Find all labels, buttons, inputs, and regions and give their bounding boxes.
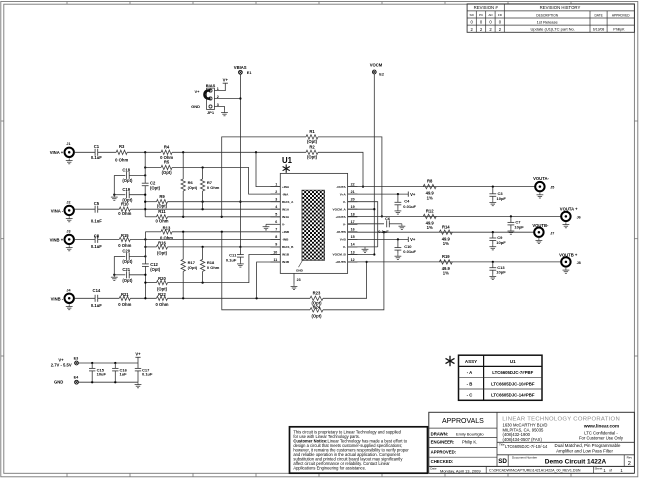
U1 pin 9 stub bbox=[271, 246, 281, 248]
svg-text:V+: V+ bbox=[135, 352, 141, 357]
revision history table bbox=[467, 4, 634, 32]
capacitor C15 bbox=[91, 363, 93, 368]
svg-text:C18: C18 bbox=[122, 168, 130, 173]
svg-text:0 Ohm: 0 Ohm bbox=[118, 243, 131, 248]
assembly option asterisk bbox=[449, 356, 451, 366]
svg-text:of: of bbox=[609, 469, 612, 473]
svg-text:J1: J1 bbox=[66, 142, 70, 146]
svg-text:R8: R8 bbox=[427, 179, 433, 184]
svg-text:12: 12 bbox=[351, 258, 355, 262]
wire JP1 pin2 to VBIAS bbox=[214, 98, 240, 100]
customer notice box bbox=[290, 427, 428, 473]
svg-text:DESCRIPTION: DESCRIPTION bbox=[536, 13, 558, 17]
U1 pin 19 stub bbox=[348, 208, 358, 210]
svg-text:(Opt): (Opt) bbox=[157, 251, 168, 256]
svg-text:Dual Matched, Pin Programmable: Dual Matched, Pin Programmable bbox=[555, 443, 621, 448]
ground at J3 bbox=[68, 245, 70, 247]
assembly options table bbox=[459, 355, 543, 400]
capacitor C9 bbox=[492, 232, 494, 238]
wire node B vertical lower bbox=[144, 266, 146, 298]
U1 pin 1 stub bbox=[271, 186, 281, 188]
svg-text:VINA -: VINA - bbox=[51, 209, 64, 214]
svg-text:0 Ohm: 0 Ohm bbox=[118, 302, 131, 307]
svg-text:SD: SD bbox=[470, 13, 475, 17]
svg-text:R13: R13 bbox=[163, 225, 171, 230]
U1 pin 7 stub bbox=[271, 231, 281, 233]
svg-text:R24: R24 bbox=[313, 304, 321, 309]
svg-text:3: 3 bbox=[275, 198, 277, 202]
title block outline bbox=[429, 412, 635, 466]
svg-text:4: 4 bbox=[275, 205, 277, 209]
capacitor C5 bbox=[94, 206, 96, 213]
wire R5 tap line bbox=[145, 167, 161, 169]
svg-text:REVISION HISTORY: REVISION HISTORY bbox=[540, 5, 581, 10]
svg-text:VBIAS: VBIAS bbox=[234, 65, 247, 70]
svg-text:V-: V- bbox=[343, 200, 346, 204]
border zone tick marks bbox=[66, 2, 68, 5]
svg-text:J5: J5 bbox=[550, 185, 554, 189]
svg-text:1%: 1% bbox=[443, 271, 449, 276]
capacitor C20 line bbox=[114, 255, 125, 257]
wire pin19 VOCM_A bbox=[348, 208, 375, 210]
wire +OUTB line pin12 to J8 bbox=[348, 261, 562, 263]
svg-text:(Opt): (Opt) bbox=[188, 185, 198, 190]
svg-text:VOCM: VOCM bbox=[370, 63, 383, 68]
wire pin6 V- to ground bbox=[266, 223, 271, 225]
svg-text:(Opt): (Opt) bbox=[122, 178, 133, 183]
resistor R9 bbox=[157, 200, 168, 204]
U1 pin 12 stub bbox=[348, 261, 358, 263]
svg-text:(Opt): (Opt) bbox=[122, 259, 133, 264]
svg-text:19: 19 bbox=[351, 205, 355, 209]
U1 exposed pad (hatched) bbox=[302, 190, 325, 260]
capacitor C2 (series in node) bbox=[142, 182, 149, 184]
ground at C13 bbox=[492, 274, 494, 276]
wire pin17 V- to C6 bbox=[348, 223, 384, 225]
capacitor C7 bbox=[510, 216, 512, 222]
svg-text:6/13/08: 6/13/08 bbox=[593, 27, 604, 31]
svg-text:1%: 1% bbox=[443, 241, 449, 246]
wire pin1 drop bbox=[256, 152, 280, 186]
svg-text:0.1uF: 0.1uF bbox=[91, 244, 102, 249]
wire J3 to C8 bbox=[74, 238, 95, 240]
jumper shunt on JP1 pins 1-2 bbox=[205, 90, 211, 98]
svg-text:VOCM_A: VOCM_A bbox=[333, 207, 347, 211]
svg-text:7: 7 bbox=[275, 228, 277, 232]
svg-text:V-: V- bbox=[343, 245, 346, 249]
power symbol V+ rail bbox=[137, 357, 139, 363]
resistor R19 bbox=[439, 260, 452, 264]
svg-text:R21: R21 bbox=[121, 292, 129, 297]
U1 pin 14 stub bbox=[348, 246, 358, 248]
svg-text:14: 14 bbox=[351, 243, 355, 247]
svg-text:(Opt): (Opt) bbox=[157, 286, 168, 291]
svg-text:R20: R20 bbox=[158, 276, 166, 281]
U1 pad GND callout bbox=[299, 260, 303, 267]
ground at C19 bbox=[113, 195, 115, 197]
svg-text:ENGINEER:: ENGINEER: bbox=[431, 440, 455, 445]
svg-text:(Opt): (Opt) bbox=[312, 313, 323, 318]
resistor R4 bbox=[161, 150, 172, 154]
svg-text:R22: R22 bbox=[158, 292, 166, 297]
wire +OUTA line pin18 to J6 bbox=[348, 215, 562, 217]
wire -OUTA line pin22 to J5 bbox=[348, 186, 536, 188]
resistor R13 bbox=[161, 230, 172, 234]
svg-text:16: 16 bbox=[351, 228, 355, 232]
svg-text:J2: J2 bbox=[66, 200, 70, 204]
svg-text:(408)434-0507 (FAX): (408)434-0507 (FAX) bbox=[503, 437, 543, 442]
svg-text:J8: J8 bbox=[577, 261, 581, 265]
resistor R22 bbox=[157, 296, 168, 300]
U1 pin 13 stub bbox=[348, 254, 358, 256]
svg-text:22: 22 bbox=[351, 182, 355, 186]
svg-text:23: 23 bbox=[297, 278, 301, 282]
svg-text:10pF: 10pF bbox=[496, 270, 506, 275]
svg-text:8: 8 bbox=[275, 235, 277, 239]
U1 assembly-option asterisk bbox=[285, 164, 287, 172]
wire V+ rail bbox=[78, 362, 138, 364]
svg-text:- C: - C bbox=[467, 393, 473, 398]
svg-text:Update (U1)LTC part No.: Update (U1)LTC part No. bbox=[531, 27, 575, 32]
ground at C7 bbox=[510, 229, 512, 231]
svg-text:ASSY: ASSY bbox=[465, 359, 477, 364]
wire -OUTB line pin16 to J7 bbox=[348, 231, 535, 233]
resistor R1 (feedback) riser bbox=[222, 137, 306, 217]
wire C14 to R21 bbox=[98, 297, 120, 299]
svg-text:Monday, April 13, 2009: Monday, April 13, 2009 bbox=[440, 468, 481, 473]
svg-text:E2: E2 bbox=[379, 72, 384, 76]
svg-text:0.1uF: 0.1uF bbox=[142, 372, 153, 377]
svg-text:VINA +: VINA + bbox=[50, 150, 64, 155]
U1 pin 6 stub bbox=[271, 223, 281, 225]
resistor R1 bbox=[306, 135, 318, 139]
resistor R6 vertical bbox=[182, 152, 184, 179]
svg-text:C14: C14 bbox=[93, 288, 101, 293]
date row bbox=[485, 466, 487, 473]
svg-text:C8: C8 bbox=[94, 234, 100, 239]
svg-text:(Opt): (Opt) bbox=[188, 265, 198, 270]
wire C8 to R15 bbox=[98, 238, 120, 240]
svg-text:(Opt): (Opt) bbox=[122, 278, 133, 283]
svg-text:LTC6605DJC-7#PBF: LTC6605DJC-7#PBF bbox=[492, 370, 533, 375]
power symbol V+ at pin15 bbox=[407, 237, 409, 242]
U1 pin 17 stub bbox=[348, 223, 358, 225]
capacitor C18 line bbox=[114, 174, 125, 176]
svg-text:0 Ohm: 0 Ohm bbox=[115, 158, 128, 163]
wire JP1 pin3 to ground bbox=[214, 107, 224, 111]
svg-text:VOUTA-: VOUTA- bbox=[533, 176, 549, 181]
svg-text:2: 2 bbox=[628, 461, 631, 467]
svg-text:DRAWN:: DRAWN: bbox=[431, 431, 449, 436]
op-amp/filter IC U1 body bbox=[280, 173, 347, 273]
capacitor C10 bbox=[397, 239, 399, 247]
wire R23 to +OUTB bbox=[323, 262, 367, 298]
wire R1 to +OUTA bbox=[318, 137, 382, 217]
wire pin4 line bbox=[145, 208, 280, 210]
svg-text:Title: Title bbox=[499, 443, 505, 447]
wire R21 to node B- bbox=[130, 297, 156, 299]
svg-text:Emily Bourtiglio: Emily Bourtiglio bbox=[456, 431, 484, 436]
svg-text:VINB +: VINB + bbox=[50, 238, 64, 243]
resistor R11 bbox=[157, 215, 168, 219]
capacitor C8 bbox=[94, 236, 96, 243]
capacitor C17 bbox=[137, 363, 139, 368]
svg-text:0 Ohm: 0 Ohm bbox=[155, 302, 168, 307]
wire R10 to node A- bbox=[130, 208, 145, 210]
svg-text:0.1uF: 0.1uF bbox=[226, 257, 237, 262]
svg-text:BIAS: BIAS bbox=[206, 83, 216, 88]
ground at pin6 bbox=[265, 224, 267, 226]
capacitor C13 bbox=[492, 262, 494, 268]
wire JP1 pin1 to V+ bbox=[214, 83, 225, 90]
resistor R16 bbox=[157, 245, 168, 249]
resistor R15 bbox=[119, 237, 130, 241]
U1 pin 20 stub bbox=[348, 201, 358, 203]
U1 pin 4 stub bbox=[271, 208, 281, 210]
wire node A vertical upper bbox=[144, 152, 146, 183]
wire J2 to C5 bbox=[74, 208, 95, 210]
svg-text:V+: V+ bbox=[410, 237, 416, 242]
wire R4 to pin1 branch and R2 bbox=[172, 151, 306, 153]
svg-text:U1: U1 bbox=[282, 156, 293, 165]
wire R13 to pin7 bbox=[172, 231, 280, 233]
svg-text:U1: U1 bbox=[510, 359, 516, 364]
resistor R23 (feedback) bbox=[310, 296, 323, 300]
svg-text:10pF: 10pF bbox=[497, 196, 507, 201]
svg-text:9: 9 bbox=[275, 243, 277, 247]
U1 pin 2 stub bbox=[271, 193, 281, 195]
svg-text:R5: R5 bbox=[164, 160, 170, 165]
svg-text:1%: 1% bbox=[427, 225, 433, 230]
wire R16 line bbox=[145, 246, 156, 248]
capacitor C16 bbox=[114, 363, 116, 368]
wire R13 line bbox=[145, 231, 161, 233]
U1 pin 10 stub bbox=[271, 254, 281, 256]
wire pin20 V- riser bbox=[348, 202, 378, 247]
svg-text:0.1uF: 0.1uF bbox=[378, 229, 389, 234]
svg-text:IN4A: IN4A bbox=[282, 215, 290, 219]
svg-text:BIAS_A: BIAS_A bbox=[282, 200, 294, 204]
svg-text:(Opt): (Opt) bbox=[307, 154, 318, 159]
resistor R18 vertical bbox=[202, 247, 204, 260]
svg-text:V+B: V+B bbox=[340, 238, 347, 242]
document number row bbox=[507, 455, 509, 467]
svg-text:C21: C21 bbox=[122, 267, 130, 272]
svg-text:LTC6605DJC-14#PBF: LTC6605DJC-14#PBF bbox=[491, 393, 535, 398]
wire R15 to node B+ and pin8 bbox=[130, 238, 280, 240]
svg-text:R4: R4 bbox=[164, 144, 170, 149]
resistor R3 bbox=[116, 150, 127, 154]
ground at J8 bbox=[565, 268, 567, 270]
svg-text:CHECKED:: CHECKED: bbox=[431, 459, 454, 464]
capacitor C21 line bbox=[114, 274, 125, 276]
svg-text:REVISION #: REVISION # bbox=[474, 5, 499, 10]
svg-text:13: 13 bbox=[351, 250, 355, 254]
wire R3 to node A+ bbox=[127, 151, 161, 153]
resistor R24 (feedback) riser bbox=[222, 232, 310, 310]
ground at J5 bbox=[539, 192, 541, 194]
wire R11 to pin5 bbox=[168, 216, 281, 218]
wire R16 to pin9 BIAS_B bbox=[168, 246, 281, 248]
ground at C6 bbox=[401, 224, 403, 226]
svg-text:R2: R2 bbox=[309, 144, 315, 149]
svg-text:1%: 1% bbox=[427, 195, 433, 200]
wire VBIAS net vertical bbox=[239, 74, 241, 247]
resistor R8 bbox=[423, 184, 436, 188]
U1 pin 8 stub bbox=[271, 238, 281, 240]
svg-text:0.1uF: 0.1uF bbox=[91, 303, 102, 308]
ground at J1 bbox=[68, 158, 70, 160]
U1 pin 5 stub bbox=[271, 216, 281, 218]
ground at power entry bbox=[137, 382, 139, 384]
svg-text:-OUTA: -OUTA bbox=[336, 185, 346, 189]
svg-text:1uF: 1uF bbox=[120, 372, 128, 377]
U1 pin 15 stub bbox=[348, 238, 358, 240]
resistor R17 vertical bbox=[182, 232, 184, 260]
wire J4 to C14 bbox=[74, 297, 95, 299]
wire C1 to R3 bbox=[98, 151, 117, 153]
ground at C11 bbox=[239, 262, 241, 264]
wire node B vertical upper bbox=[144, 232, 146, 264]
wire GND rail bbox=[78, 381, 138, 383]
ground at J2 bbox=[68, 216, 70, 218]
svg-text:+OUTA: +OUTA bbox=[335, 215, 346, 219]
svg-text:Date: Date bbox=[430, 467, 437, 471]
wire pin13 VOCM_B bbox=[348, 254, 375, 256]
svg-text:LTC6605DJC-7/-10/-14: LTC6605DJC-7/-10/-14 bbox=[505, 444, 548, 449]
svg-text:1: 1 bbox=[275, 182, 277, 186]
power symbol V+ at JP1 bbox=[223, 82, 228, 84]
resistor R5 bbox=[161, 165, 172, 169]
svg-text:R9: R9 bbox=[159, 194, 165, 199]
svg-text:0 Ohm: 0 Ohm bbox=[207, 185, 220, 190]
ground at pin14 V- net bbox=[364, 247, 366, 249]
wire R5 to pin2 bbox=[172, 168, 280, 195]
svg-text:R11: R11 bbox=[158, 209, 166, 214]
ground at C4 bbox=[397, 209, 399, 211]
resistor R24 bbox=[310, 308, 323, 312]
svg-text:R1: R1 bbox=[309, 129, 315, 134]
svg-text:-OUTB: -OUTB bbox=[336, 230, 347, 234]
svg-text:SD: SD bbox=[498, 458, 507, 465]
wire VOCM net vertical bbox=[373, 74, 375, 255]
svg-text:R10: R10 bbox=[121, 201, 129, 206]
svg-text:Rev: Rev bbox=[627, 455, 633, 459]
svg-text:Philip K.: Philip K. bbox=[462, 439, 477, 444]
resistor R10 bbox=[119, 207, 130, 211]
resistor R20 bbox=[157, 280, 168, 284]
wire C18-C19 left vertical bbox=[113, 175, 115, 194]
svg-text:Applications Engineering for a: Applications Engineering for assistance. bbox=[293, 466, 366, 471]
wire C20-C21 left vertical bbox=[113, 256, 115, 274]
svg-text:R19: R19 bbox=[442, 254, 450, 259]
svg-text:0.1uF: 0.1uF bbox=[91, 155, 102, 160]
svg-text:IN4B: IN4B bbox=[282, 260, 290, 264]
svg-text:- B: - B bbox=[467, 382, 473, 387]
svg-text:LTC6605DJC-10#PBF: LTC6605DJC-10#PBF bbox=[491, 382, 535, 387]
svg-text:GND: GND bbox=[191, 104, 200, 109]
wire node A vertical lower bbox=[144, 186, 146, 217]
svg-text:C5: C5 bbox=[94, 201, 100, 206]
svg-text:R15: R15 bbox=[121, 233, 129, 238]
ground at C3 bbox=[492, 200, 494, 202]
svg-text:C19: C19 bbox=[122, 187, 130, 192]
svg-text:Demo Circuit 1422A: Demo Circuit 1422A bbox=[545, 459, 607, 466]
svg-text:0 Ohm: 0 Ohm bbox=[155, 219, 168, 224]
svg-text:JP1: JP1 bbox=[207, 110, 215, 115]
wire R9 line bbox=[145, 201, 156, 203]
wire R7 lower stub bbox=[202, 202, 204, 210]
ground at J4 bbox=[68, 304, 70, 306]
capacitor C14 bbox=[94, 295, 96, 302]
svg-text:R16: R16 bbox=[158, 241, 166, 246]
capacitor C6 bbox=[386, 220, 388, 227]
capacitor C11 on VBIAS bbox=[239, 247, 241, 255]
svg-text:E1: E1 bbox=[247, 71, 252, 75]
wire R22 to pin11 riser and R23 bbox=[168, 297, 311, 299]
svg-text:IN1B: IN1B bbox=[282, 253, 290, 257]
approvals box bbox=[496, 412, 498, 466]
svg-text:10pF: 10pF bbox=[496, 240, 506, 245]
wire J1 to C1 bbox=[74, 151, 95, 153]
svg-text:DATE: DATE bbox=[594, 13, 602, 17]
resistor R7 vertical bbox=[202, 168, 204, 180]
svg-text:-INA: -INA bbox=[282, 192, 289, 196]
svg-text:+INA: +INA bbox=[282, 185, 290, 189]
capacitor C12 (series in node) bbox=[142, 263, 149, 265]
U1 pin 23 pad ground bbox=[293, 273, 295, 284]
svg-text:J6: J6 bbox=[577, 216, 581, 220]
svg-text:C1: C1 bbox=[94, 144, 100, 149]
svg-text:GND: GND bbox=[296, 268, 304, 272]
svg-text:R14: R14 bbox=[442, 225, 450, 230]
svg-text:V+: V+ bbox=[223, 78, 229, 83]
svg-text:R23: R23 bbox=[313, 291, 321, 296]
U1 pin 21 stub bbox=[348, 193, 358, 195]
svg-text:(Opt): (Opt) bbox=[307, 139, 318, 144]
svg-text:+OUTB: +OUTB bbox=[335, 260, 346, 264]
wire C5 to R10 bbox=[98, 208, 120, 210]
svg-text:GND: GND bbox=[54, 380, 63, 385]
svg-text:0.01uF: 0.01uF bbox=[403, 204, 416, 209]
wire R2 to -OUTA bbox=[318, 152, 363, 186]
svg-text:Amplifier and Low Pass Filter: Amplifier and Low Pass Filter bbox=[556, 449, 613, 454]
svg-text:PhilipK: PhilipK bbox=[613, 27, 625, 31]
corporate block bbox=[497, 441, 634, 443]
U1 pin 18 stub bbox=[348, 216, 358, 218]
svg-text:V-: V- bbox=[343, 223, 346, 227]
svg-text:For Customer Use Only: For Customer Use Only bbox=[579, 435, 624, 440]
wire R24 to -OUTB bbox=[323, 232, 384, 310]
wire R11 line bbox=[145, 216, 156, 218]
svg-text:R12: R12 bbox=[426, 209, 434, 214]
svg-text:Sheet: Sheet bbox=[595, 467, 603, 471]
wire pin14 V- bbox=[348, 246, 378, 248]
svg-text:21: 21 bbox=[351, 190, 355, 194]
svg-text:V-: V- bbox=[282, 223, 285, 227]
svg-text:10uF: 10uF bbox=[97, 372, 107, 377]
svg-text:J7: J7 bbox=[550, 231, 554, 235]
svg-text:1st Release: 1st Release bbox=[537, 19, 559, 24]
capacitor C19 line bbox=[114, 194, 125, 196]
wire R20 to pin10 bbox=[168, 255, 281, 283]
svg-text:PC: PC bbox=[479, 13, 484, 17]
title row bbox=[497, 454, 634, 456]
U1 pin 3 stub bbox=[271, 201, 281, 203]
svg-text:11: 11 bbox=[273, 258, 277, 262]
ground at J6 bbox=[565, 222, 567, 224]
svg-text:10: 10 bbox=[273, 250, 277, 254]
